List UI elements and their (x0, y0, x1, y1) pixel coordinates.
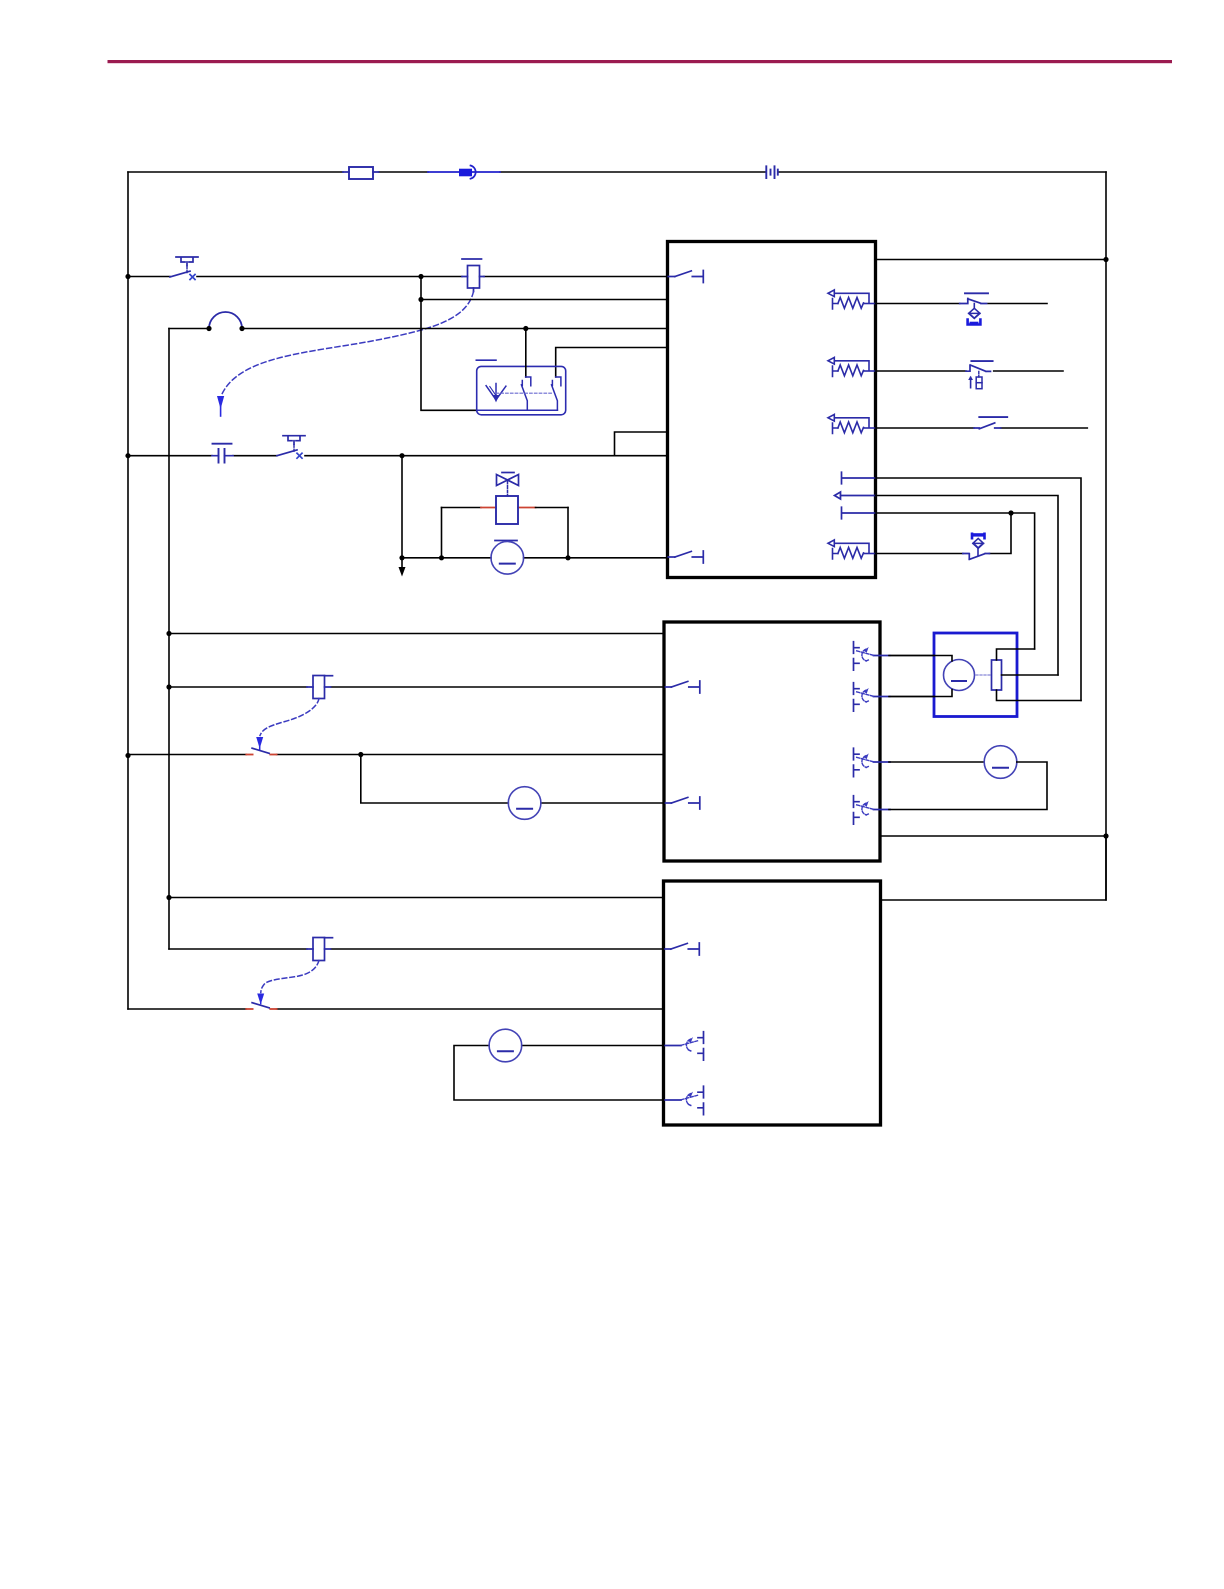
node at (128,455.7) (125, 453, 130, 458)
wire: top feed rail y=172 (128, 171, 1106, 173)
wire: ECU1 pin 428 (876, 427, 1088, 429)
ECU2 control unit box (664, 622, 880, 861)
washer pump motor M1 (491, 541, 524, 575)
pressure switch FS-B (966, 361, 993, 389)
switch SC (974, 417, 1007, 429)
ECU1 pin bar 513 (842, 507, 876, 519)
wire: row D y=347.5 from wiper box to ECU1 (556, 348, 668, 378)
wire: row B y=299.5 (421, 299, 668, 301)
module common rail (477, 409, 558, 411)
capacitor C1 (212, 444, 233, 463)
ECU1 resistor out 1 (828, 290, 876, 309)
wire: row F y=455.7 (128, 455, 668, 457)
ECU3 input switch 949 (664, 943, 699, 955)
ECU3 control unit box (664, 881, 881, 1125)
wire: vertical x=568 (567, 508, 569, 558)
valve symbol (497, 473, 519, 497)
wire: ECU2 pin 836 (880, 835, 1106, 837)
battery cell symbol on top rail (766, 166, 778, 178)
connector junction (428, 166, 500, 179)
wiper switch module (blue box) (476, 360, 565, 415)
ECU1 pin arrow 495.5 (835, 492, 876, 499)
wire: blue box middle pin (1002, 674, 1059, 676)
dotted link motor-resistor (976, 674, 990, 676)
header rule (108, 60, 1173, 63)
module switch 2 (552, 377, 561, 410)
wire: row C y=328.5 with jumper arc (169, 328, 668, 330)
wire: ECU1 pin 371 (876, 370, 1064, 372)
wire: ECU1 pin 513 loop (876, 513, 1035, 649)
wire: vertical x=402 with stop arrow (401, 456, 403, 558)
ECU1 control unit box (668, 242, 876, 578)
node at (169,687) (166, 684, 171, 689)
wire: blue box top pin (997, 649, 1035, 660)
node at (421,299.5) (418, 297, 423, 302)
wire: left bus vertical x=128 (127, 172, 129, 1009)
ECU3 selector 1100 (665, 1086, 704, 1114)
lamp L2 (984, 746, 1017, 779)
wire: vertical x=441.5 (441, 508, 443, 558)
module mechanical link (496, 392, 553, 394)
node at (441.5,557.8) (439, 555, 444, 560)
ECU2 input switch 803 (665, 797, 700, 809)
node at (568,557.8) (565, 555, 570, 560)
wire: blue box left feed top (890, 656, 952, 662)
wire: right bus vertical x=1106 (1105, 172, 1107, 900)
float switch FS-A (960, 293, 988, 325)
relay coil K1 on row A (462, 259, 484, 292)
wire: row H y=557.8 washer pump row (402, 557, 668, 559)
wire: ECU2 pin 803 via lamp (361, 755, 664, 804)
wire: washer valve row y=507.5 (442, 507, 482, 509)
ECU1 input switch bottom (668, 551, 703, 563)
wire: ECU3 pin 949 (169, 948, 664, 950)
wire: row E y=432 jog to ECU1 (615, 432, 668, 456)
wire: ECU2 selector out 655.5 (889, 655, 934, 657)
node at (209,328.5) (206, 326, 211, 331)
wire: vertical x=169 bus (168, 329, 170, 950)
switch S3 (246, 748, 276, 754)
node at (128,755.5) (125, 753, 130, 758)
wire: ECU1 pin 553.5 via float switch (876, 513, 1012, 554)
wire: ECU3 pin 1045.5 via lamp L3 (454, 1046, 664, 1101)
wire: ECU2 pin 754.5 (128, 754, 664, 756)
dashed actuator curve K3 (261, 961, 319, 993)
node at (402,455.7) (399, 453, 404, 458)
washer pump assembly (blue box right) (934, 633, 1017, 717)
switch S2 (T-handle) (277, 436, 305, 459)
node at (360.8,754.5) (358, 752, 363, 757)
wire: blue box left feed bottom (890, 690, 952, 697)
node at (421,276.5) (418, 274, 423, 279)
wire: ECU2 selector out 762 via lamp L2 (889, 761, 984, 763)
node at (128,276.5) (125, 274, 130, 279)
wire: ECU1 pin 495.5 loop (876, 496, 1059, 676)
node at (1106,836) (1103, 833, 1108, 838)
wire: ECU1 pin 259.5 to right bus (876, 259, 1107, 261)
lamp L3 (489, 1029, 522, 1062)
wire: ECU1 pin 478 loop (876, 478, 1082, 701)
wire: ECU3 pin 1009 (128, 1008, 664, 1010)
wire: ECU3 right pin 900 to right bus (881, 836, 1107, 900)
wire: lamp L2 return loop (889, 762, 1047, 810)
float switch FS-D inverted (963, 533, 990, 559)
node at (169,897.5) (166, 895, 171, 900)
wire: ECU3 pin 897.5 (169, 897, 664, 899)
ECU2 selector 696.5 (854, 683, 891, 711)
node at (242,328.5) (239, 326, 244, 331)
MAIN SCHEMATIC (125, 166, 1108, 1126)
dashed actuator curve K1 to S1 (222, 292, 474, 395)
wire: ECU2 selector out 696.5 (889, 696, 934, 698)
switch S1 (T-handle) (170, 257, 198, 280)
ECU1 resistor out 4 (828, 540, 876, 559)
switch S4 (246, 1003, 276, 1009)
wire: vertical x=421 to wiper box rail (421, 277, 477, 411)
solenoid box (496, 496, 518, 524)
ECU3 selector 1045.5 (665, 1032, 704, 1060)
wire: ECU2 pin 687 (169, 686, 664, 688)
relay coil K3 (307, 938, 333, 961)
ECU1 resistor out 3 (828, 414, 876, 433)
module switch 1 (521, 377, 530, 410)
wire: row A y=276.5 (128, 276, 668, 278)
dashed actuator curve K2 (256, 699, 319, 750)
node at (169,633.5) (166, 631, 171, 636)
node at (402,557.8) (399, 555, 404, 560)
ECU1 pin bar 478 (842, 472, 876, 484)
lamp L1 (508, 787, 541, 820)
ECU1 input switch top (668, 271, 703, 283)
wire: ECU1 pin 303.5 (876, 303, 1048, 305)
node at (1106,259.5) (1103, 257, 1108, 262)
ECU2 selector 655.5 (854, 642, 891, 670)
fuse F1 (343, 167, 379, 179)
relay coil K2 (307, 676, 333, 699)
wire: feed from row C into module switch 1 (525, 329, 527, 378)
ECU2 input switch 687 (665, 681, 700, 693)
ECU2 selector 762 (854, 748, 891, 776)
pump motor in blue box (944, 660, 975, 691)
wire: ECU2 pin 633.5 (169, 633, 664, 635)
node at (1011,513) (1008, 510, 1013, 515)
wire: blue box bottom pin (997, 690, 1082, 701)
node at (525.8,328.5) (523, 326, 528, 331)
jumper arc (209, 312, 242, 328)
wash jet symbol inside module (486, 384, 506, 401)
ECU2 selector 809.5 (854, 796, 891, 824)
ECU1 resistor out 2 (828, 357, 876, 376)
level resistor in blue box (992, 660, 1002, 690)
